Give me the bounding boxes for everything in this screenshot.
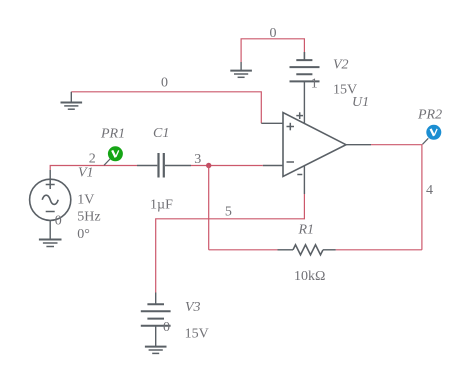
svg-text:0: 0 [55, 214, 62, 229]
svg-text:15V: 15V [185, 327, 209, 342]
ground GND2 (top, near V2) [230, 62, 252, 77]
svg-text:0: 0 [270, 26, 277, 41]
capacitor C1 [137, 153, 191, 178]
svg-text:U1: U1 [352, 95, 369, 110]
ground GND1 (top-left) [61, 92, 83, 109]
svg-text:2: 2 [89, 152, 96, 167]
battery V2 [290, 52, 320, 81]
svg-text:0: 0 [161, 76, 168, 91]
wire net2 (V1 to C1) [50, 166, 137, 171]
junction node 3 [206, 163, 211, 168]
svg-text:PR2: PR2 [417, 108, 442, 123]
resistor R1 [278, 245, 336, 255]
AC source V1 [30, 170, 71, 239]
svg-text:5Hz: 5Hz [77, 210, 100, 225]
wire net4 output horizontal [371, 144, 423, 146]
svg-text:V2: V2 [333, 57, 349, 72]
V1 + marker [46, 184, 55, 186]
U1 pin +in [261, 122, 283, 124]
wire net3 feedback horizontal to R1 [209, 249, 278, 251]
svg-text:1: 1 [311, 77, 318, 92]
U1 V- marker [297, 174, 302, 176]
U1 pin out [346, 144, 371, 146]
U1 + input marker [287, 126, 295, 128]
svg-text:10kΩ: 10kΩ [294, 269, 325, 284]
op-amp U1 [261, 81, 371, 194]
wire net4 vertical [421, 145, 423, 250]
svg-text:R1: R1 [298, 223, 315, 238]
probe PR2 [423, 138, 429, 144]
svg-text:4: 4 [426, 183, 433, 198]
wire net0 left (ground to op-amp + input) [71, 92, 261, 124]
svg-text:V1: V1 [78, 166, 94, 181]
ground GND4 (under V3) [145, 347, 167, 354]
U1 V+ marker [296, 115, 303, 117]
V1 top pin [49, 170, 51, 179]
V1 bottom pin [49, 220, 51, 239]
svg-text:3: 3 [194, 152, 201, 167]
U1 - input marker [287, 161, 295, 163]
wire net4 (R1 right to output corner) [336, 249, 422, 251]
svg-text:0: 0 [163, 320, 170, 335]
wire net3 feedback vertical [208, 166, 210, 250]
svg-text:V3: V3 [185, 300, 201, 315]
ground GND3 (under V1) [39, 240, 62, 247]
U1 pin V- [303, 166, 305, 194]
svg-text:C1: C1 [153, 126, 169, 141]
svg-text:5: 5 [225, 205, 232, 220]
V1 - marker [46, 211, 55, 213]
svg-text:0°: 0° [77, 227, 90, 242]
U1 pin -in [263, 165, 283, 167]
svg-text:1V: 1V [77, 193, 94, 208]
V1 sine marker [42, 195, 58, 204]
probe PR1 [104, 159, 111, 166]
svg-text:1µF: 1µF [150, 198, 173, 213]
U1 pin V+ [303, 81, 305, 123]
wire net3 (C1 to op-amp -in) [191, 165, 263, 167]
wire net0 top horizontal [241, 39, 304, 62]
wire net5 (V- pin to V3) [156, 194, 305, 293]
svg-text:PR1: PR1 [100, 127, 125, 142]
battery V3 [141, 293, 171, 347]
